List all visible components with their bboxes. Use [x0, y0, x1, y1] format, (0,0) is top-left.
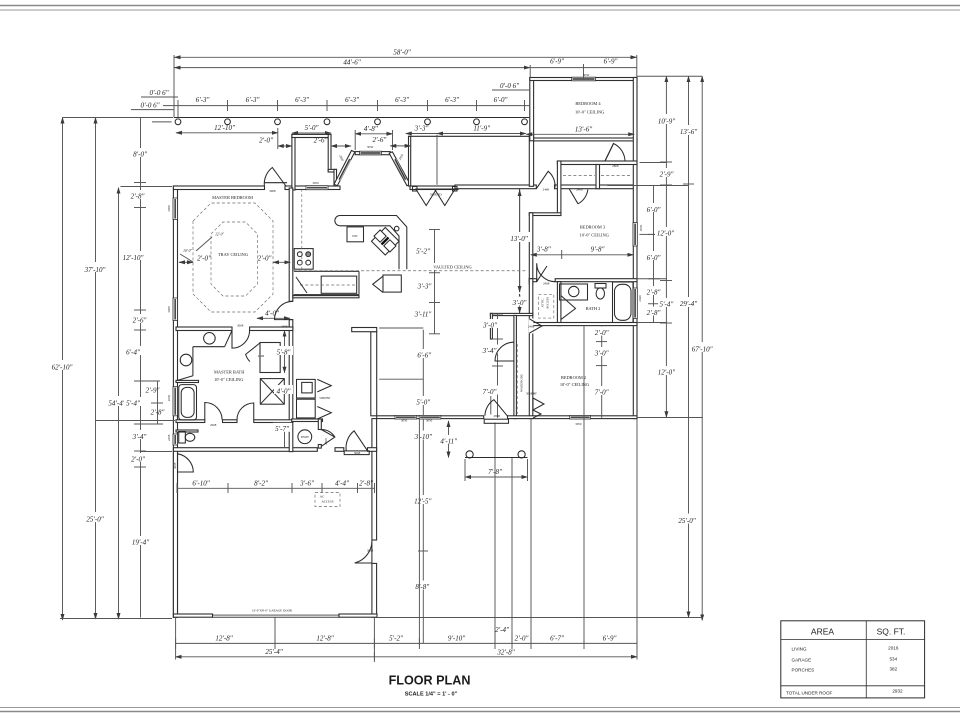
washer dryer [297, 379, 316, 398]
bedroom4 top wall [530, 78, 637, 81]
bedroom2 closet west wall [514, 315, 517, 418]
linen X closet [260, 379, 284, 405]
svg-text:3'-3": 3'-3" [417, 282, 432, 290]
svg-text:2668: 2668 [281, 324, 288, 328]
svg-text:4'-8": 4'-8" [364, 125, 378, 133]
svg-text:3'-8": 3'-8" [536, 246, 551, 254]
svg-text:2'-8": 2'-8" [359, 479, 373, 487]
svg-text:3050: 3050 [583, 73, 590, 77]
linen dim 4'-0" [274, 385, 293, 394]
svg-text:AC: AC [320, 495, 324, 499]
master bath door [232, 331, 250, 349]
porch front edge [174, 117, 529, 119]
svg-text:29'-4": 29'-4" [680, 300, 697, 308]
bottom extension verticals [176, 326, 637, 660]
svg-text:NBR FD: NBR FD [430, 193, 442, 197]
bedroom4 top window [572, 77, 596, 81]
svg-text:5'-2": 5'-2" [416, 247, 430, 255]
svg-text:6'-3": 6'-3" [445, 96, 459, 104]
bath hall door [205, 402, 222, 419]
svg-text:2'-8": 2'-8" [151, 409, 165, 417]
right chain inner [653, 186, 655, 323]
bath2 interior wall [557, 282, 561, 326]
svg-text:LIVING: LIVING [792, 647, 807, 652]
dim 58'-0" [175, 56, 637, 58]
svg-text:2868: 2868 [324, 438, 328, 445]
right outer 67'-10" [701, 76, 703, 620]
svg-text:4'-11": 4'-11" [440, 437, 457, 445]
west window master bath tub [173, 387, 178, 416]
svg-text:3068: 3068 [367, 548, 374, 552]
closet door bed3 [569, 189, 588, 204]
svg-text:10'-0" CEILING: 10'-0" CEILING [214, 377, 244, 382]
svg-text:534: 534 [889, 657, 897, 662]
master bedroom 2'-0" dims [179, 261, 193, 263]
left outer dim 62'-10" [62, 118, 64, 621]
svg-text:5'-4": 5'-4" [660, 300, 674, 308]
south wall bedroom2 block [508, 416, 638, 419]
svg-text:4'-4": 4'-4" [335, 479, 349, 487]
svg-text:2468: 2468 [576, 188, 583, 192]
svg-text:12'-0": 12'-0" [658, 369, 675, 377]
dim 7'-0" patio door [479, 387, 498, 396]
bath2 east window [633, 288, 637, 319]
svg-text:TOTAL UNDER ROOF: TOTAL UNDER ROOF [786, 691, 833, 696]
svg-text:6'-0": 6'-0" [494, 96, 508, 104]
bath2 door [537, 263, 556, 282]
svg-text:382: 382 [889, 667, 897, 672]
dim 2'-6" bay [331, 145, 351, 147]
svg-text:6'-7": 6'-7" [550, 634, 564, 642]
svg-text:BEDROOM 3: BEDROOM 3 [580, 225, 606, 230]
bath2 tub [613, 282, 634, 323]
sheet border bottom [0, 707, 960, 709]
svg-text:2040: 2040 [638, 295, 642, 302]
svg-text:8'-0": 8'-0" [133, 151, 147, 159]
hall south wall [557, 161, 637, 165]
front window in wall [306, 186, 328, 190]
svg-text:2868: 2868 [494, 414, 501, 418]
svg-text:2468: 2468 [258, 354, 265, 358]
svg-text:62'-10": 62'-10" [52, 364, 73, 372]
rear door [346, 431, 368, 451]
dim 3'-3" [406, 133, 437, 135]
svg-text:2668: 2668 [210, 423, 217, 427]
svg-text:6'-9": 6'-9" [604, 58, 618, 66]
kitchen chain 5'-2"/3'-3"/3'-11" [434, 230, 436, 334]
svg-text:10'-0" CEILING: 10'-0" CEILING [575, 109, 605, 114]
svg-text:5'-7": 5'-7" [275, 425, 289, 433]
front wall segment right of door [285, 186, 340, 190]
svg-text:2468: 2468 [543, 281, 550, 285]
svg-text:0'-0 6": 0'-0 6" [149, 89, 168, 97]
master bath north wall [176, 327, 232, 331]
rear door threshold [344, 451, 369, 455]
bedroom3 dim 3'-8"/9'-8" [531, 254, 634, 256]
closet shelf dashes [563, 175, 595, 177]
dim 5'-7" [284, 423, 286, 448]
closet door gap [529, 319, 534, 334]
left dim 37'-10" / 25'-0" [95, 118, 97, 620]
dim 3'-10" [422, 419, 424, 452]
dim 7'-8" patio [465, 476, 528, 478]
foyer bay top wall [292, 134, 331, 137]
portico divider line [436, 135, 438, 185]
hall dim 13'-0" [519, 190, 521, 292]
svg-text:5'-4": 5'-4" [126, 399, 140, 407]
svg-text:2468: 2468 [543, 188, 550, 192]
svg-text:WARDROBE: WARDROBE [520, 374, 524, 392]
svg-text:3'-0": 3'-0" [512, 299, 527, 307]
svg-text:3'-0": 3'-0" [482, 322, 497, 330]
mud hall wall [318, 419, 321, 430]
svg-text:BEDROOM 4: BEDROOM 4 [575, 101, 601, 106]
svg-text:9'-8": 9'-8" [591, 246, 605, 254]
svg-text:6'-3": 6'-3" [295, 96, 309, 104]
tray ceiling inner octagon [211, 222, 258, 296]
svg-text:25'-0": 25'-0" [86, 516, 103, 524]
dim chain 6'-3" row [163, 105, 530, 107]
svg-text:12'-8": 12'-8" [316, 634, 333, 642]
rear wall living left of doors [377, 416, 484, 419]
area table [781, 621, 925, 698]
svg-text:SCALE 1/4" = 1' - 0": SCALE 1/4" = 1' - 0" [405, 692, 458, 698]
hall-bedroom3 door [536, 171, 555, 188]
svg-text:12'-8": 12'-8" [215, 634, 232, 642]
svg-text:6'-3": 6'-3" [395, 96, 409, 104]
svg-text:AREA: AREA [811, 627, 834, 637]
master suite east wall [289, 188, 293, 301]
wic south door [237, 403, 254, 420]
corridor chain y488 [177, 487, 375, 489]
svg-text:6'-3": 6'-3" [345, 96, 359, 104]
svg-text:6'-3": 6'-3" [196, 96, 210, 104]
tub alcove wall [176, 380, 199, 382]
right chain 13'-6"/29'-4"/25'-0" [688, 76, 690, 617]
svg-text:3050: 3050 [639, 224, 643, 231]
living ceiling lines [379, 327, 423, 329]
svg-text:5'-0": 5'-0" [416, 398, 430, 406]
svg-text:2016: 2016 [888, 646, 899, 651]
patio slab edge [465, 457, 528, 459]
svg-text:3068: 3068 [237, 323, 244, 327]
svg-text:2468: 2468 [167, 434, 171, 441]
portico left wall [409, 136, 411, 186]
west windows: master bedroom 2 [173, 198, 178, 220]
svg-text:TRAY CEILING: TRAY CEILING [218, 252, 249, 257]
kitchen south wall [293, 296, 359, 298]
pantry cabinet [383, 275, 401, 292]
rear windows pair [395, 415, 417, 419]
kitchen sink diamond [371, 226, 399, 255]
svg-text:11'-9": 11'-9" [473, 125, 490, 133]
svg-text:SQ. FT.: SQ. FT. [877, 627, 906, 637]
svg-text:2'-9": 2'-9" [660, 170, 674, 178]
corridor south wall [173, 448, 317, 452]
vaulted ceiling dashes [294, 270, 527, 272]
wic closet box [260, 343, 280, 373]
svg-text:8'-8": 8'-8" [415, 583, 429, 591]
svg-text:DW: DW [352, 234, 357, 238]
master tub [179, 385, 197, 420]
svg-text:3068: 3068 [173, 462, 177, 469]
portico right wall [529, 134, 533, 186]
svg-text:2050: 2050 [167, 394, 171, 401]
kitchen base cabinet [321, 276, 357, 293]
svg-text:3'-11": 3'-11" [414, 310, 432, 318]
closet nook west wall [490, 313, 492, 339]
front door arc [264, 182, 287, 184]
svg-text:3'-3": 3'-3" [414, 125, 429, 133]
foyer bay left wall [292, 134, 295, 190]
foyer bay step [328, 169, 336, 172]
svg-text:3068: 3068 [354, 451, 361, 455]
bath2 inner door [561, 296, 576, 320]
svg-text:19'-4": 19'-4" [132, 539, 149, 547]
front wall right of hall door [555, 185, 638, 189]
bed2 closet chain 3'-0"/3'-4"/7'-0" [497, 314, 499, 418]
left dim 54'-4" [118, 188, 120, 619]
foyer bay right wall [328, 134, 331, 171]
svg-text:3'-10": 3'-10" [414, 433, 432, 441]
wic dim 5'-8" [284, 331, 286, 373]
master bath vanity [193, 346, 225, 348]
svg-text:PORCHES: PORCHES [792, 668, 815, 673]
svg-text:2'-8": 2'-8" [647, 309, 661, 317]
svg-text:6'-9": 6'-9" [603, 634, 617, 642]
front wall under nook to fireplace [410, 186, 458, 190]
svg-text:2868: 2868 [612, 164, 619, 168]
svg-text:2'-6": 2'-6" [314, 137, 328, 145]
svg-text:2'-4": 2'-4" [495, 626, 509, 634]
svg-text:58'-0": 58'-0" [393, 49, 410, 57]
svg-text:6'-0": 6'-0" [647, 206, 661, 214]
svg-text:3'-4": 3'-4" [482, 347, 497, 355]
bedroom2 closet door [495, 342, 514, 361]
dim 12'-10" porch [176, 132, 278, 134]
svg-text:25'-0": 25'-0" [678, 517, 695, 525]
svg-text:67'-10": 67'-10" [692, 346, 713, 354]
right chain mid [665, 76, 667, 417]
svg-text:13'-6": 13'-6" [575, 126, 592, 134]
bottom chain 2 [176, 656, 637, 658]
svg-text:MASTER BATH: MASTER BATH [214, 370, 245, 375]
svg-text:12'-0": 12'-0" [215, 233, 224, 237]
closet divider mid [596, 165, 600, 189]
patio french doors [484, 419, 508, 423]
svg-text:5'-8": 5'-8" [277, 348, 291, 356]
garage door line [213, 615, 340, 617]
svg-text:32'-8": 32'-8" [496, 648, 514, 656]
closet door [529, 319, 542, 333]
nook bay top window [360, 151, 382, 155]
AC access dashed [315, 493, 340, 507]
svg-text:2'-0": 2'-0" [259, 137, 273, 145]
garage right door [355, 541, 372, 564]
dim 4'-8" nook [355, 133, 392, 135]
svg-text:54'-4": 54'-4" [108, 399, 125, 407]
attic access dashed [539, 294, 554, 318]
master suite entry door [275, 301, 293, 319]
bath2 south wall [533, 323, 637, 326]
svg-text:2'-0": 2'-0" [197, 255, 211, 263]
svg-text:13'-6": 13'-6" [680, 128, 697, 136]
wardrobe dashed shelf [516, 344, 518, 414]
stair L wall [352, 328, 377, 332]
svg-text:0'-0 6": 0'-0 6" [500, 82, 519, 90]
garage east wall lower [372, 419, 377, 540]
closet divider west [557, 161, 561, 216]
bedroom4 left wall [530, 78, 534, 141]
svg-text:2'-9": 2'-9" [146, 386, 160, 394]
garage east wall upper [371, 332, 377, 416]
svg-text:6'-6": 6'-6" [417, 351, 431, 359]
svg-text:3050: 3050 [312, 181, 319, 185]
svg-text:3050: 3050 [575, 422, 582, 426]
svg-text:5068 BF: 5068 BF [319, 396, 330, 400]
garage west wall [173, 450, 177, 617]
left extension lines [62, 117, 173, 119]
svg-text:3050: 3050 [367, 145, 374, 149]
dim 11'-9" [437, 133, 526, 135]
bedroom2 closet north wall [490, 313, 532, 315]
svg-text:5068 BF: 5068 BF [526, 392, 537, 396]
bath2 west wall [529, 279, 533, 419]
left inner chain [140, 118, 142, 618]
svg-text:ATTIC: ATTIC [541, 298, 545, 307]
svg-text:12'-10": 12'-10" [214, 124, 235, 132]
svg-text:BATH 2: BATH 2 [586, 306, 601, 311]
svg-text:16'-0"X8'-0" GARAGE DOOR: 16'-0"X8'-0" GARAGE DOOR [252, 608, 293, 612]
right extension lines [637, 75, 702, 77]
svg-text:13'-0": 13'-0" [510, 235, 527, 243]
svg-text:6'-9": 6'-9" [550, 58, 564, 66]
svg-text:12'-0": 12'-0" [657, 230, 674, 238]
svg-text:9'-10": 9'-10" [448, 634, 465, 642]
bedroom2 bifold [533, 398, 544, 410]
nook bay right diagonal wall with window [389, 152, 410, 186]
stairs chain 6'-6"/5'-0" [422, 330, 424, 416]
water heater [298, 430, 312, 444]
dim 6'-9" pair [530, 67, 637, 69]
west window toilet [173, 434, 178, 445]
svg-text:6'-3": 6'-3" [246, 96, 260, 104]
svg-text:3068: 3068 [167, 306, 171, 313]
svg-text:0'-0 6": 0'-0 6" [140, 102, 159, 110]
bath2 vanity [560, 284, 588, 300]
fireplace triangles [416, 189, 437, 206]
kitchen island band [335, 216, 407, 270]
bedroom4 door leaf [605, 144, 614, 162]
pantry bifold [373, 276, 383, 292]
svg-text:12'-5": 12'-5" [414, 497, 431, 505]
bottom chain 1 [176, 642, 637, 644]
dim 5'-0" bay [292, 132, 331, 134]
svg-text:BEDROOM 2: BEDROOM 2 [561, 375, 586, 380]
svg-text:10'-0" CEILING: 10'-0" CEILING [580, 232, 610, 237]
garage service door [178, 454, 194, 472]
bedroom3 east window [633, 223, 637, 246]
dim 12'-5" / 8'-8" [422, 452, 424, 644]
dim 4'-11" [448, 421, 450, 458]
svg-text:3'-0": 3'-0" [594, 349, 609, 357]
svg-text:3050: 3050 [401, 419, 408, 423]
dim 2'-0" [278, 145, 292, 147]
svg-text:2'-6": 2'-6" [133, 317, 147, 325]
tray ceiling outer octagon [193, 203, 273, 312]
front wall master bedroom [173, 186, 264, 190]
bedroom2 south window [570, 415, 591, 419]
garage south wall [173, 614, 212, 617]
svg-text:2'-6": 2'-6" [373, 136, 387, 144]
svg-text:3068: 3068 [167, 205, 171, 212]
bath2 toilet [595, 284, 606, 289]
wic dim 4'-0" [257, 317, 290, 319]
svg-text:5'-2": 5'-2" [389, 634, 403, 642]
svg-text:VAULTED CEILING: VAULTED CEILING [433, 264, 472, 269]
svg-text:6'-4": 6'-4" [126, 349, 140, 357]
toilet room wall [176, 430, 198, 432]
dim 2'-6" nook [390, 145, 410, 147]
svg-text:2'-8": 2'-8" [131, 193, 145, 201]
wic-bath band south [176, 420, 205, 423]
nook bay top wall [355, 152, 390, 155]
laundry south wall [292, 419, 323, 422]
east exterior wall [633, 78, 637, 419]
bedroom4 bottom wall [530, 138, 637, 141]
svg-text:3068: 3068 [269, 189, 276, 193]
bedroom3 west wall [529, 213, 533, 285]
west exterior wall [173, 186, 177, 617]
hall door to bed4 hall [605, 144, 625, 162]
front wall great room [455, 185, 536, 189]
garage door recess jambs [212, 614, 214, 617]
svg-text:MASTER BEDROOM: MASTER BEDROOM [212, 195, 253, 200]
hall edge line [519, 189, 521, 292]
nook bay left diagonal wall with window [334, 151, 355, 186]
svg-text:4'-0": 4'-0" [277, 387, 291, 395]
svg-text:FLOOR PLAN: FLOOR PLAN [389, 674, 471, 688]
svg-text:GARAGE: GARAGE [792, 658, 812, 663]
sheet border top [0, 5, 960, 7]
porch columns [175, 119, 527, 125]
svg-text:44'-6": 44'-6" [343, 59, 360, 67]
cooktop [294, 249, 313, 270]
mud door [321, 429, 335, 446]
svg-text:ACCESS: ACCESS [321, 500, 333, 504]
dim 13'-6" bedroom4 [526, 133, 634, 135]
svg-text:37'-10": 37'-10" [84, 266, 106, 274]
svg-text:2932: 2932 [892, 689, 903, 694]
dishwasher [347, 227, 364, 242]
laundry bifold doors [317, 379, 331, 392]
svg-text:3'-6": 3'-6" [299, 479, 314, 487]
svg-text:6'-10": 6'-10" [192, 479, 209, 487]
svg-text:2'-0": 2'-0" [131, 455, 145, 463]
patio columns [466, 451, 473, 458]
svg-text:2'-0": 2'-0" [258, 255, 272, 263]
bedroom3 closet jog wall [529, 213, 561, 216]
svg-text:DWH: DWH [301, 435, 309, 439]
svg-text:10'-0" CEILING: 10'-0" CEILING [560, 382, 590, 387]
svg-text:10'-9": 10'-9" [658, 117, 675, 125]
bath2 north wall [529, 279, 536, 282]
svg-text:3050: 3050 [426, 419, 433, 423]
bedroom2 chain [601, 326, 603, 418]
svg-text:12'-10": 12'-10" [123, 254, 144, 262]
svg-text:6'-0": 6'-0" [647, 254, 661, 262]
svg-text:ACCESS: ACCESS [546, 297, 550, 309]
